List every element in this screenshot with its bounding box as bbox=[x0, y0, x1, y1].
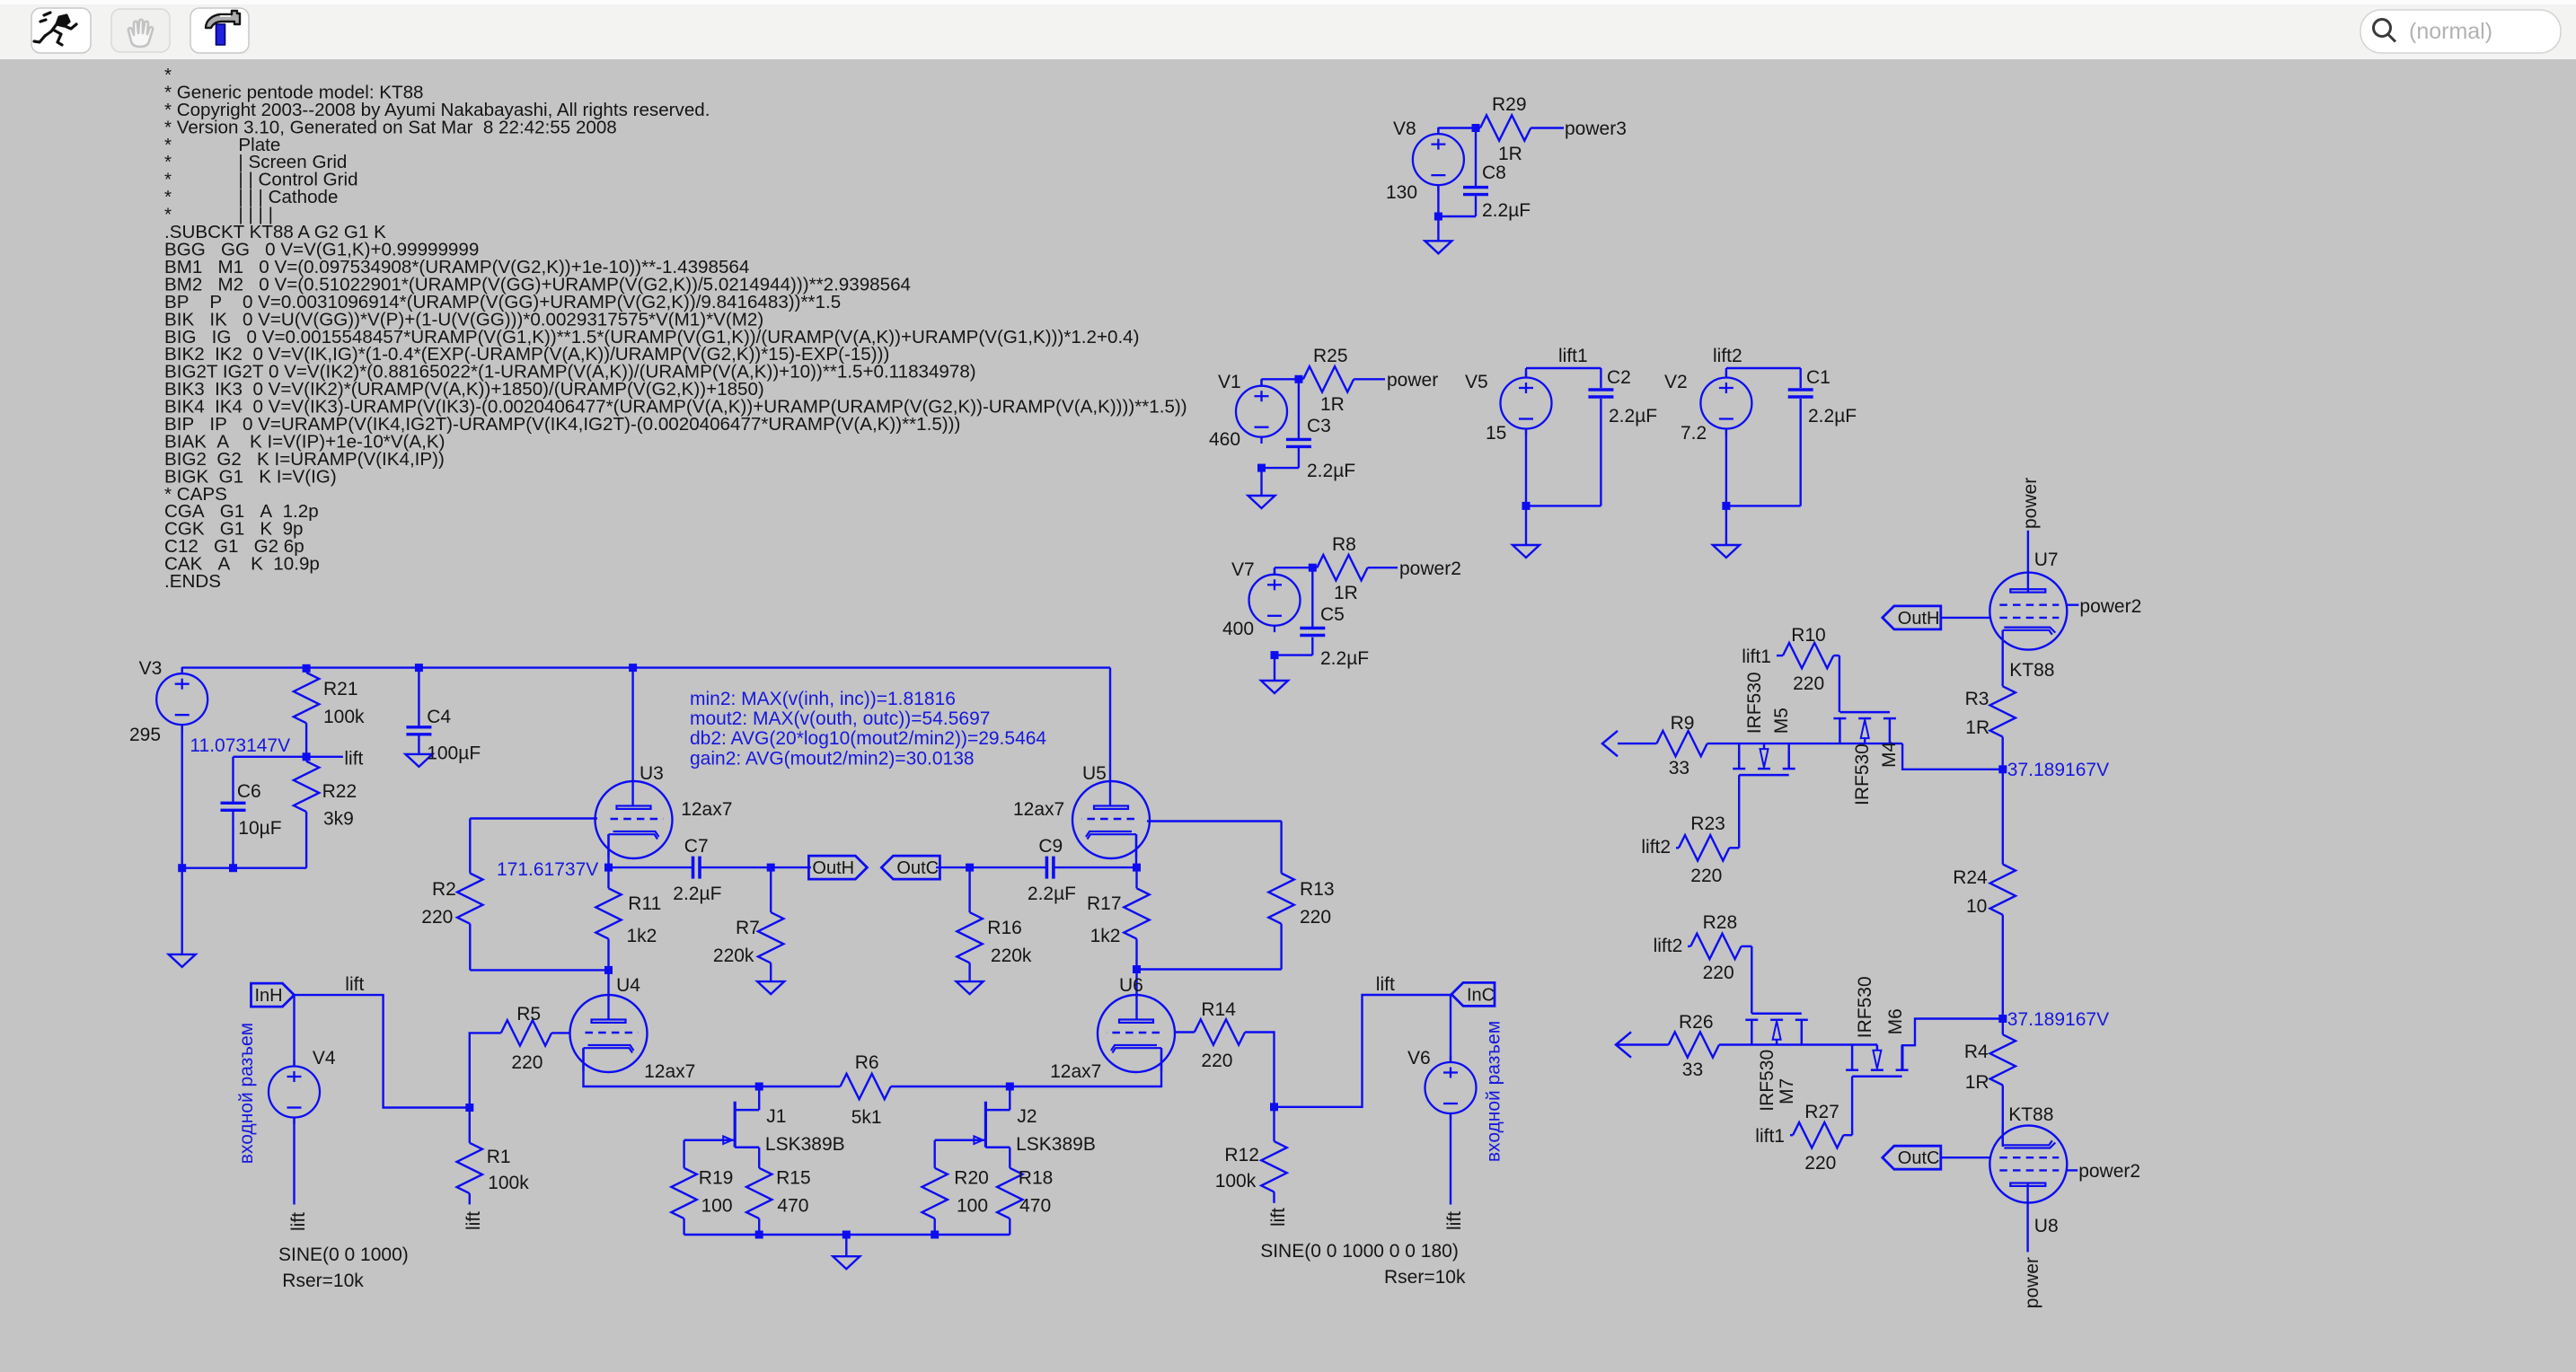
wire R22 bottom bbox=[305, 812, 307, 868]
wire R21 top lead bbox=[305, 668, 307, 673]
wire R19 bottom lead bbox=[683, 1218, 684, 1235]
svg-text:J2: J2 bbox=[1017, 1106, 1037, 1127]
wire R24 bottom lead bbox=[2002, 915, 2004, 1019]
NMOS M6 IRF530 bbox=[1846, 1045, 1909, 1077]
wire U7 control grid to OutH bbox=[1941, 617, 1990, 619]
node V1+/R25/C3 junction bbox=[1294, 375, 1302, 383]
NMOS M5 IRF530 bbox=[1733, 743, 1795, 775]
svg-text:R7: R7 bbox=[736, 918, 760, 938]
wire R15 bottom lead bbox=[758, 1218, 760, 1235]
wire R13 to U6 plate node bbox=[1137, 968, 1282, 970]
resistor R6 bbox=[841, 1074, 891, 1099]
wire bus to ground bbox=[845, 1235, 847, 1256]
svg-text:lift: lift bbox=[1444, 1211, 1465, 1230]
triode U4 12ax7 bbox=[570, 995, 648, 1072]
wire V5 plus stub bbox=[1525, 368, 1527, 378]
wire R29 to power3 bbox=[1531, 127, 1564, 128]
wire J1 drain bbox=[758, 1086, 760, 1110]
wire C6 bottom lead bbox=[232, 812, 234, 868]
wire V3 plus stub bbox=[181, 668, 182, 674]
pan hand icon bbox=[128, 20, 153, 47]
svg-text:R12: R12 bbox=[1224, 1145, 1259, 1165]
svg-text:U5: U5 bbox=[1082, 763, 1107, 784]
wire V7 top to R8/C5 node bbox=[1275, 567, 1317, 568]
wire C8 bottom bbox=[1475, 196, 1477, 216]
node R12/InC junction bbox=[1270, 1103, 1278, 1111]
node 37V upper junction bbox=[1998, 765, 2007, 773]
node U5 cathode junction bbox=[1133, 864, 1141, 872]
wire U4 plate pin bbox=[607, 970, 609, 1019]
wire R7 top lead bbox=[770, 867, 772, 912]
svg-text:OutC: OutC bbox=[896, 858, 939, 878]
svg-text:IRF530: IRF530 bbox=[1855, 976, 1875, 1038]
wire R6 right lead bbox=[891, 1086, 1010, 1087]
NMOS M4 IRF530 bbox=[1833, 712, 1895, 743]
svg-text:R6: R6 bbox=[855, 1052, 879, 1073]
capacitor C6 bbox=[221, 803, 246, 810]
svg-text:lift: lift bbox=[1376, 974, 1395, 995]
wire R4 to U8 cathode bbox=[2002, 1086, 2004, 1148]
svg-text:2.2µF: 2.2µF bbox=[1028, 884, 1076, 904]
wire V2 to ground bbox=[1725, 506, 1727, 545]
resistor R7 bbox=[758, 912, 783, 963]
wire J2 drain bbox=[1009, 1086, 1010, 1110]
port OutC at U8 bbox=[1883, 1146, 1941, 1169]
node V3-/C6 bottom junction bbox=[178, 864, 186, 872]
wire R11 bottom lead bbox=[607, 939, 609, 971]
svg-text:C6: C6 bbox=[237, 781, 261, 802]
node C6 bottom junction bbox=[229, 864, 237, 872]
svg-text:220: 220 bbox=[1201, 1051, 1232, 1071]
wire V8 plus stub bbox=[1437, 128, 1439, 135]
node R15 bottom junction bbox=[755, 1231, 763, 1239]
svg-text:lift2: lift2 bbox=[1713, 346, 1742, 366]
svg-text:2.2µF: 2.2µF bbox=[1808, 406, 1857, 427]
wire V3 minus down bbox=[181, 725, 182, 868]
svg-text:power: power bbox=[2020, 478, 2041, 529]
svg-text:220k: 220k bbox=[713, 945, 754, 966]
resistor R1 bbox=[457, 1143, 482, 1193]
wire R24 top lead bbox=[2002, 770, 2004, 865]
voltage source V4 symbol bbox=[269, 1060, 320, 1124]
wire U6 plate pin bbox=[1135, 970, 1137, 1020]
wire R2 bottom lead bbox=[469, 924, 471, 971]
svg-text:V8: V8 bbox=[1393, 119, 1416, 139]
wire R25 to power bbox=[1354, 378, 1385, 380]
resistor R20 bbox=[922, 1168, 948, 1218]
svg-text:LSK389B: LSK389B bbox=[765, 1134, 845, 1155]
node V7- junction bbox=[1271, 651, 1279, 659]
wire R10 to M4 gate bbox=[1833, 655, 1839, 656]
capacitor C5 bbox=[1300, 629, 1325, 636]
node R5/R1/InH junction bbox=[465, 1104, 473, 1112]
search magnifier icon bbox=[2374, 20, 2396, 42]
svg-text:R22: R22 bbox=[322, 781, 357, 802]
svg-text:lift1: lift1 bbox=[1742, 646, 1771, 667]
svg-text:V5: V5 bbox=[1465, 372, 1488, 392]
wire R9/M5/M4 channel line bbox=[1707, 743, 1902, 744]
wire J1 gate to R19 bbox=[683, 1140, 684, 1168]
wire U5 cathode down bbox=[1135, 834, 1137, 867]
svg-text:lift1: lift1 bbox=[1755, 1126, 1785, 1147]
resistor R21 bbox=[294, 673, 319, 723]
wire U5 plate pin from bus bbox=[1109, 668, 1111, 806]
wire U6 cathode to R6 node bbox=[1010, 1048, 1161, 1086]
wire arrow to R26 bbox=[1617, 1043, 1669, 1045]
svg-text:12ax7: 12ax7 bbox=[644, 1061, 695, 1082]
wire V2 minus stub bbox=[1725, 429, 1727, 506]
svg-text:400: 400 bbox=[1222, 619, 1254, 639]
wire C9 to U5 cathode node bbox=[1054, 866, 1137, 868]
resistor R29 bbox=[1480, 115, 1531, 140]
resistor R13 bbox=[1268, 874, 1293, 924]
wire U3 grid to R2 bbox=[470, 817, 597, 819]
svg-text:R11: R11 bbox=[628, 893, 661, 914]
svg-text:KT88: KT88 bbox=[2008, 1104, 2053, 1125]
toolbar background bbox=[0, 0, 2576, 59]
wire C3 bottom to V1 minus bbox=[1262, 467, 1299, 469]
svg-text:220: 220 bbox=[1793, 673, 1824, 694]
wire C5 bottom bbox=[1311, 638, 1313, 655]
node OutC junction bbox=[966, 864, 974, 872]
wire R20 bottom lead bbox=[933, 1218, 935, 1235]
svg-text:R21: R21 bbox=[323, 679, 358, 699]
svg-text:lift: lift bbox=[1268, 1208, 1289, 1227]
ground below V3 bbox=[169, 954, 196, 967]
svg-text:1k2: 1k2 bbox=[627, 926, 657, 946]
svg-text:power3: power3 bbox=[1565, 119, 1627, 139]
svg-text:power: power bbox=[1387, 370, 1438, 391]
wire InH to R5/R1 node bbox=[295, 995, 470, 1107]
svg-text:12ax7: 12ax7 bbox=[1050, 1061, 1101, 1082]
wire R27 to M6 gate bbox=[1843, 1134, 1852, 1136]
wire V2 plus stub bbox=[1725, 368, 1727, 378]
svg-text:lift: lift bbox=[345, 974, 364, 995]
port OutH at U7 bbox=[1883, 606, 1941, 629]
wire R14 to node bbox=[1245, 1033, 1274, 1107]
wire J2 source to R18 bbox=[1009, 1148, 1010, 1168]
svg-text:R17: R17 bbox=[1087, 893, 1122, 914]
svg-text:R16: R16 bbox=[987, 918, 1022, 938]
svg-text:OutH: OutH bbox=[1898, 609, 1940, 629]
wire arrow to R9 bbox=[1618, 743, 1656, 744]
resistor R16 bbox=[957, 912, 982, 963]
svg-text:100k: 100k bbox=[323, 707, 365, 727]
wire R8 to power2 bbox=[1368, 567, 1398, 568]
ground below V5 bbox=[1513, 545, 1539, 558]
svg-text:2.2µF: 2.2µF bbox=[1609, 406, 1657, 427]
pentode U7 KT88 bbox=[1989, 573, 2067, 650]
svg-text:M6: M6 bbox=[1885, 1008, 1906, 1034]
wire V5 to ground bbox=[1525, 506, 1527, 545]
ground below JFET bus bbox=[833, 1256, 860, 1269]
svg-text:33: 33 bbox=[1669, 758, 1689, 778]
ground below R16 bbox=[957, 981, 984, 994]
wire lift2 to R28 bbox=[1688, 945, 1690, 947]
pentode U8 KT88 bbox=[1989, 1126, 2067, 1203]
svg-text:460: 460 bbox=[1209, 429, 1240, 450]
triode U3 12ax7 bbox=[595, 781, 673, 858]
wire U3 plate pin bbox=[631, 668, 633, 806]
svg-text:power2: power2 bbox=[2079, 596, 2141, 617]
voltage source V1 symbol bbox=[1236, 379, 1287, 444]
wire C7 to OutH node bbox=[700, 866, 771, 868]
wire U4 cathode to R6 node bbox=[584, 1048, 760, 1086]
svg-text:R20: R20 bbox=[954, 1167, 989, 1188]
wire R17 top lead bbox=[1135, 867, 1137, 888]
port InH bbox=[251, 983, 295, 1007]
wire C4 bottom lead bbox=[418, 736, 419, 754]
svg-text:R18: R18 bbox=[1019, 1167, 1054, 1188]
ground below V1 bbox=[1248, 496, 1275, 508]
wire R13 bottom lead bbox=[1280, 924, 1282, 970]
wire J1 source to R15 bbox=[758, 1148, 760, 1168]
node R21 top junction bbox=[303, 664, 311, 673]
svg-text:10µF: 10µF bbox=[238, 818, 281, 839]
wire V8 minus stub bbox=[1437, 185, 1439, 216]
voltage source V7 symbol bbox=[1249, 568, 1301, 633]
wire U6 grid to R14 bbox=[1174, 1031, 1195, 1033]
node C4 top junction bbox=[415, 664, 423, 672]
svg-text:R28: R28 bbox=[1703, 912, 1738, 933]
wire bottom bus to R22 bbox=[182, 867, 306, 869]
resistor R12 bbox=[1261, 1141, 1286, 1192]
resistor R28 bbox=[1690, 934, 1741, 959]
svg-text:C8: C8 bbox=[1482, 163, 1506, 183]
resistor R27 bbox=[1793, 1122, 1843, 1148]
voltage source V2 symbol bbox=[1700, 371, 1751, 435]
JFET J1 LSK389B bbox=[684, 1102, 760, 1148]
ground below C4 bbox=[405, 754, 432, 767]
svg-text:R24: R24 bbox=[1953, 867, 1988, 888]
resistor R11 bbox=[595, 888, 621, 938]
svg-text:R26: R26 bbox=[1679, 1012, 1714, 1033]
svg-text:15: 15 bbox=[1486, 423, 1506, 444]
svg-text:37.189167V: 37.189167V bbox=[2007, 760, 2109, 780]
node V2- junction bbox=[1722, 502, 1730, 510]
node U4 plate junction bbox=[604, 966, 613, 974]
svg-text:C1: C1 bbox=[1806, 367, 1831, 388]
svg-text:IRF530: IRF530 bbox=[1852, 743, 1873, 805]
svg-text:R5: R5 bbox=[516, 1004, 541, 1025]
svg-text:J1: J1 bbox=[766, 1106, 786, 1127]
node ground junction on bus bbox=[842, 1231, 851, 1239]
svg-text:SINE(0 0 1000 0 0 180): SINE(0 0 1000 0 0 180) bbox=[1260, 1241, 1459, 1262]
svg-text:R25: R25 bbox=[1313, 346, 1348, 366]
node V8+/R29/C8 junction bbox=[1472, 124, 1480, 132]
open wire arrow left of R9 bbox=[1602, 731, 1618, 756]
svg-text:12ax7: 12ax7 bbox=[1013, 799, 1064, 820]
wire R2 top lead bbox=[469, 819, 471, 874]
svg-text:lift: lift bbox=[344, 749, 363, 770]
wire to OutH port bbox=[771, 866, 811, 868]
svg-text:R2: R2 bbox=[432, 879, 456, 900]
wire OutC port to node bbox=[936, 866, 970, 868]
node lift junction bbox=[303, 752, 311, 761]
wire C3 bottom bbox=[1298, 448, 1300, 468]
svg-text:R9: R9 bbox=[1671, 713, 1695, 734]
svg-text:InC: InC bbox=[1467, 985, 1495, 1005]
capacitor C1 bbox=[1788, 390, 1813, 397]
svg-text:U7: U7 bbox=[2034, 550, 2059, 570]
svg-text:130: 130 bbox=[1386, 182, 1417, 203]
wire C2 bottom lead bbox=[1600, 399, 1601, 506]
svg-text:U6: U6 bbox=[1119, 975, 1143, 996]
svg-text:U4: U4 bbox=[616, 975, 640, 996]
wire cathode node to C7 bbox=[609, 866, 693, 868]
node J1 drain / R6 left junction bbox=[755, 1083, 763, 1091]
svg-text:R19: R19 bbox=[699, 1167, 734, 1188]
wire M4 source to 37V node bbox=[1902, 743, 2003, 770]
svg-text:IRF530: IRF530 bbox=[1757, 1050, 1778, 1112]
resistor R17 bbox=[1124, 888, 1149, 938]
svg-text:220: 220 bbox=[511, 1052, 543, 1073]
wire junction to C8 top bbox=[1475, 128, 1477, 188]
node U3 cathode / C7 junction bbox=[604, 864, 613, 872]
capacitor C8 bbox=[1463, 188, 1488, 195]
wire U8 control grid to OutC bbox=[1941, 1157, 1990, 1158]
svg-text:KT88: KT88 bbox=[2009, 660, 2054, 681]
svg-text:2.2µF: 2.2µF bbox=[673, 884, 721, 904]
wire M4 gate up to R10 bbox=[1839, 655, 1840, 712]
svg-text:1R: 1R bbox=[1334, 583, 1358, 603]
wire R1 top lead bbox=[469, 1108, 471, 1143]
triode U5 12ax7 bbox=[1072, 781, 1150, 858]
svg-text:lift2: lift2 bbox=[1641, 837, 1671, 857]
wire source resistors bottom bus bbox=[684, 1234, 1010, 1236]
resistor R2 bbox=[457, 874, 482, 924]
svg-text:lift: lift bbox=[463, 1211, 484, 1230]
svg-text:100: 100 bbox=[957, 1195, 988, 1216]
triode U6 12ax7 bbox=[1098, 995, 1175, 1072]
svg-text:M5: M5 bbox=[1771, 708, 1792, 734]
svg-text:R23: R23 bbox=[1690, 814, 1725, 834]
toolbar button pan (disabled) bbox=[111, 9, 170, 52]
wire V4 minus down bbox=[293, 1118, 295, 1205]
wire R26/M7/M6 channel line bbox=[1719, 1043, 1877, 1045]
wire R28 to M7 gate bbox=[1742, 945, 1752, 947]
wire R5 to U4 grid bbox=[551, 1032, 569, 1033]
port OutC (middle) bbox=[881, 856, 940, 879]
node V8- junction bbox=[1434, 213, 1442, 221]
wire R12 top lead bbox=[1273, 1107, 1275, 1141]
resistor R23 bbox=[1679, 835, 1729, 860]
wire U7 screen to power2 bbox=[2068, 604, 2079, 606]
svg-text:IRF530: IRF530 bbox=[1744, 672, 1765, 734]
svg-text:power: power bbox=[2022, 1257, 2042, 1308]
wire C2 bottom to V5 minus bbox=[1526, 505, 1601, 506]
capacitor C7 bbox=[693, 857, 701, 879]
svg-text:220: 220 bbox=[1804, 1153, 1836, 1174]
svg-text:220: 220 bbox=[1690, 866, 1722, 886]
wire junction to C3 top bbox=[1298, 379, 1300, 439]
node V1- junction bbox=[1257, 464, 1266, 472]
JFET J2 LSK389B bbox=[935, 1102, 1010, 1148]
svg-text:37.189167V: 37.189167V bbox=[2007, 1009, 2109, 1030]
voltage source V3 symbol bbox=[156, 667, 207, 732]
wire lift1 to R10 bbox=[1777, 655, 1783, 656]
svg-text:1R: 1R bbox=[1965, 717, 1989, 738]
node OutH junction bbox=[767, 864, 775, 872]
svg-text:V2: V2 bbox=[1664, 372, 1688, 392]
ground below V7 bbox=[1261, 681, 1288, 693]
wire R7 bottom lead bbox=[770, 963, 772, 981]
svg-text:295: 295 bbox=[129, 725, 161, 745]
open wire arrow left of R26 bbox=[1616, 1032, 1631, 1057]
wire C8 bottom to V8 minus bbox=[1438, 215, 1476, 217]
wire node up to R5 bbox=[470, 1033, 501, 1107]
wire V2 top to C1 bbox=[1726, 367, 1801, 369]
wire InH down to V4 bbox=[293, 995, 295, 1066]
wire lift node bbox=[234, 756, 343, 758]
svg-text:V7: V7 bbox=[1231, 559, 1255, 580]
svg-text:R8: R8 bbox=[1332, 534, 1356, 555]
node V5- junction bbox=[1522, 502, 1531, 510]
node U6 plate junction bbox=[1133, 965, 1141, 973]
port InC bbox=[1451, 982, 1495, 1006]
svg-text:220: 220 bbox=[421, 907, 453, 928]
svg-text:100k: 100k bbox=[488, 1173, 529, 1193]
svg-text:33: 33 bbox=[1682, 1060, 1703, 1080]
wire R12 bottom lead bbox=[1273, 1192, 1275, 1202]
capacitor C3 bbox=[1286, 439, 1311, 446]
wire J2 gate to R20 bbox=[933, 1140, 935, 1168]
svg-text:R4: R4 bbox=[1964, 1042, 1989, 1062]
resistor R3 bbox=[1990, 686, 2016, 736]
wire C1 bottom to V2 minus bbox=[1726, 505, 1801, 506]
voltage source V5 symbol bbox=[1501, 371, 1552, 435]
wire C2 top lead bbox=[1600, 368, 1601, 388]
wire U8 plate to power bbox=[2026, 1183, 2028, 1252]
wire V8 to ground bbox=[1437, 216, 1439, 241]
svg-text:C9: C9 bbox=[1038, 836, 1063, 857]
svg-text:C3: C3 bbox=[1307, 416, 1331, 436]
node J2 drain / R6 right junction bbox=[1006, 1083, 1014, 1091]
resistor R5 bbox=[501, 1020, 551, 1045]
svg-text:1R: 1R bbox=[1320, 394, 1345, 415]
resistor R8 bbox=[1317, 555, 1367, 580]
wire R22 top lead bbox=[305, 757, 307, 761]
wire power to U7 plate bbox=[2027, 531, 2029, 593]
node 37V lower junction bbox=[1998, 1015, 2007, 1023]
svg-text:M7: M7 bbox=[1777, 1078, 1797, 1104]
wire V5 minus stub bbox=[1525, 429, 1527, 506]
svg-text:7.2: 7.2 bbox=[1681, 423, 1707, 444]
toolbar button run bbox=[31, 8, 91, 53]
wire R1 bottom lead bbox=[469, 1193, 471, 1204]
svg-text:R1: R1 bbox=[487, 1147, 511, 1167]
ground below V2 bbox=[1713, 545, 1740, 558]
voltage source V6 symbol bbox=[1425, 1056, 1477, 1121]
ground below V8 bbox=[1425, 241, 1451, 253]
wire node to InC bbox=[1275, 995, 1451, 1107]
wire R21 bottom bbox=[305, 723, 307, 757]
wire R4 top lead bbox=[2002, 1019, 2004, 1035]
hammer icon bbox=[206, 11, 240, 45]
wire junction to C5 top bbox=[1311, 567, 1313, 628]
svg-text:Rser=10k: Rser=10k bbox=[1384, 1267, 1466, 1288]
svg-text:1R: 1R bbox=[1498, 144, 1522, 164]
svg-text:M4: M4 bbox=[1879, 742, 1900, 768]
resistor R4 bbox=[1990, 1034, 2016, 1085]
capacitor C9 bbox=[1046, 857, 1054, 879]
wire R13 top lead bbox=[1280, 822, 1282, 874]
wire V1 to ground bbox=[1260, 468, 1262, 496]
wire lift2 to R23 bbox=[1676, 847, 1679, 849]
svg-text:SINE(0 0 1000): SINE(0 0 1000) bbox=[278, 1244, 409, 1265]
wire R16 bottom lead bbox=[968, 963, 970, 981]
svg-text:lift: lift bbox=[288, 1212, 309, 1231]
